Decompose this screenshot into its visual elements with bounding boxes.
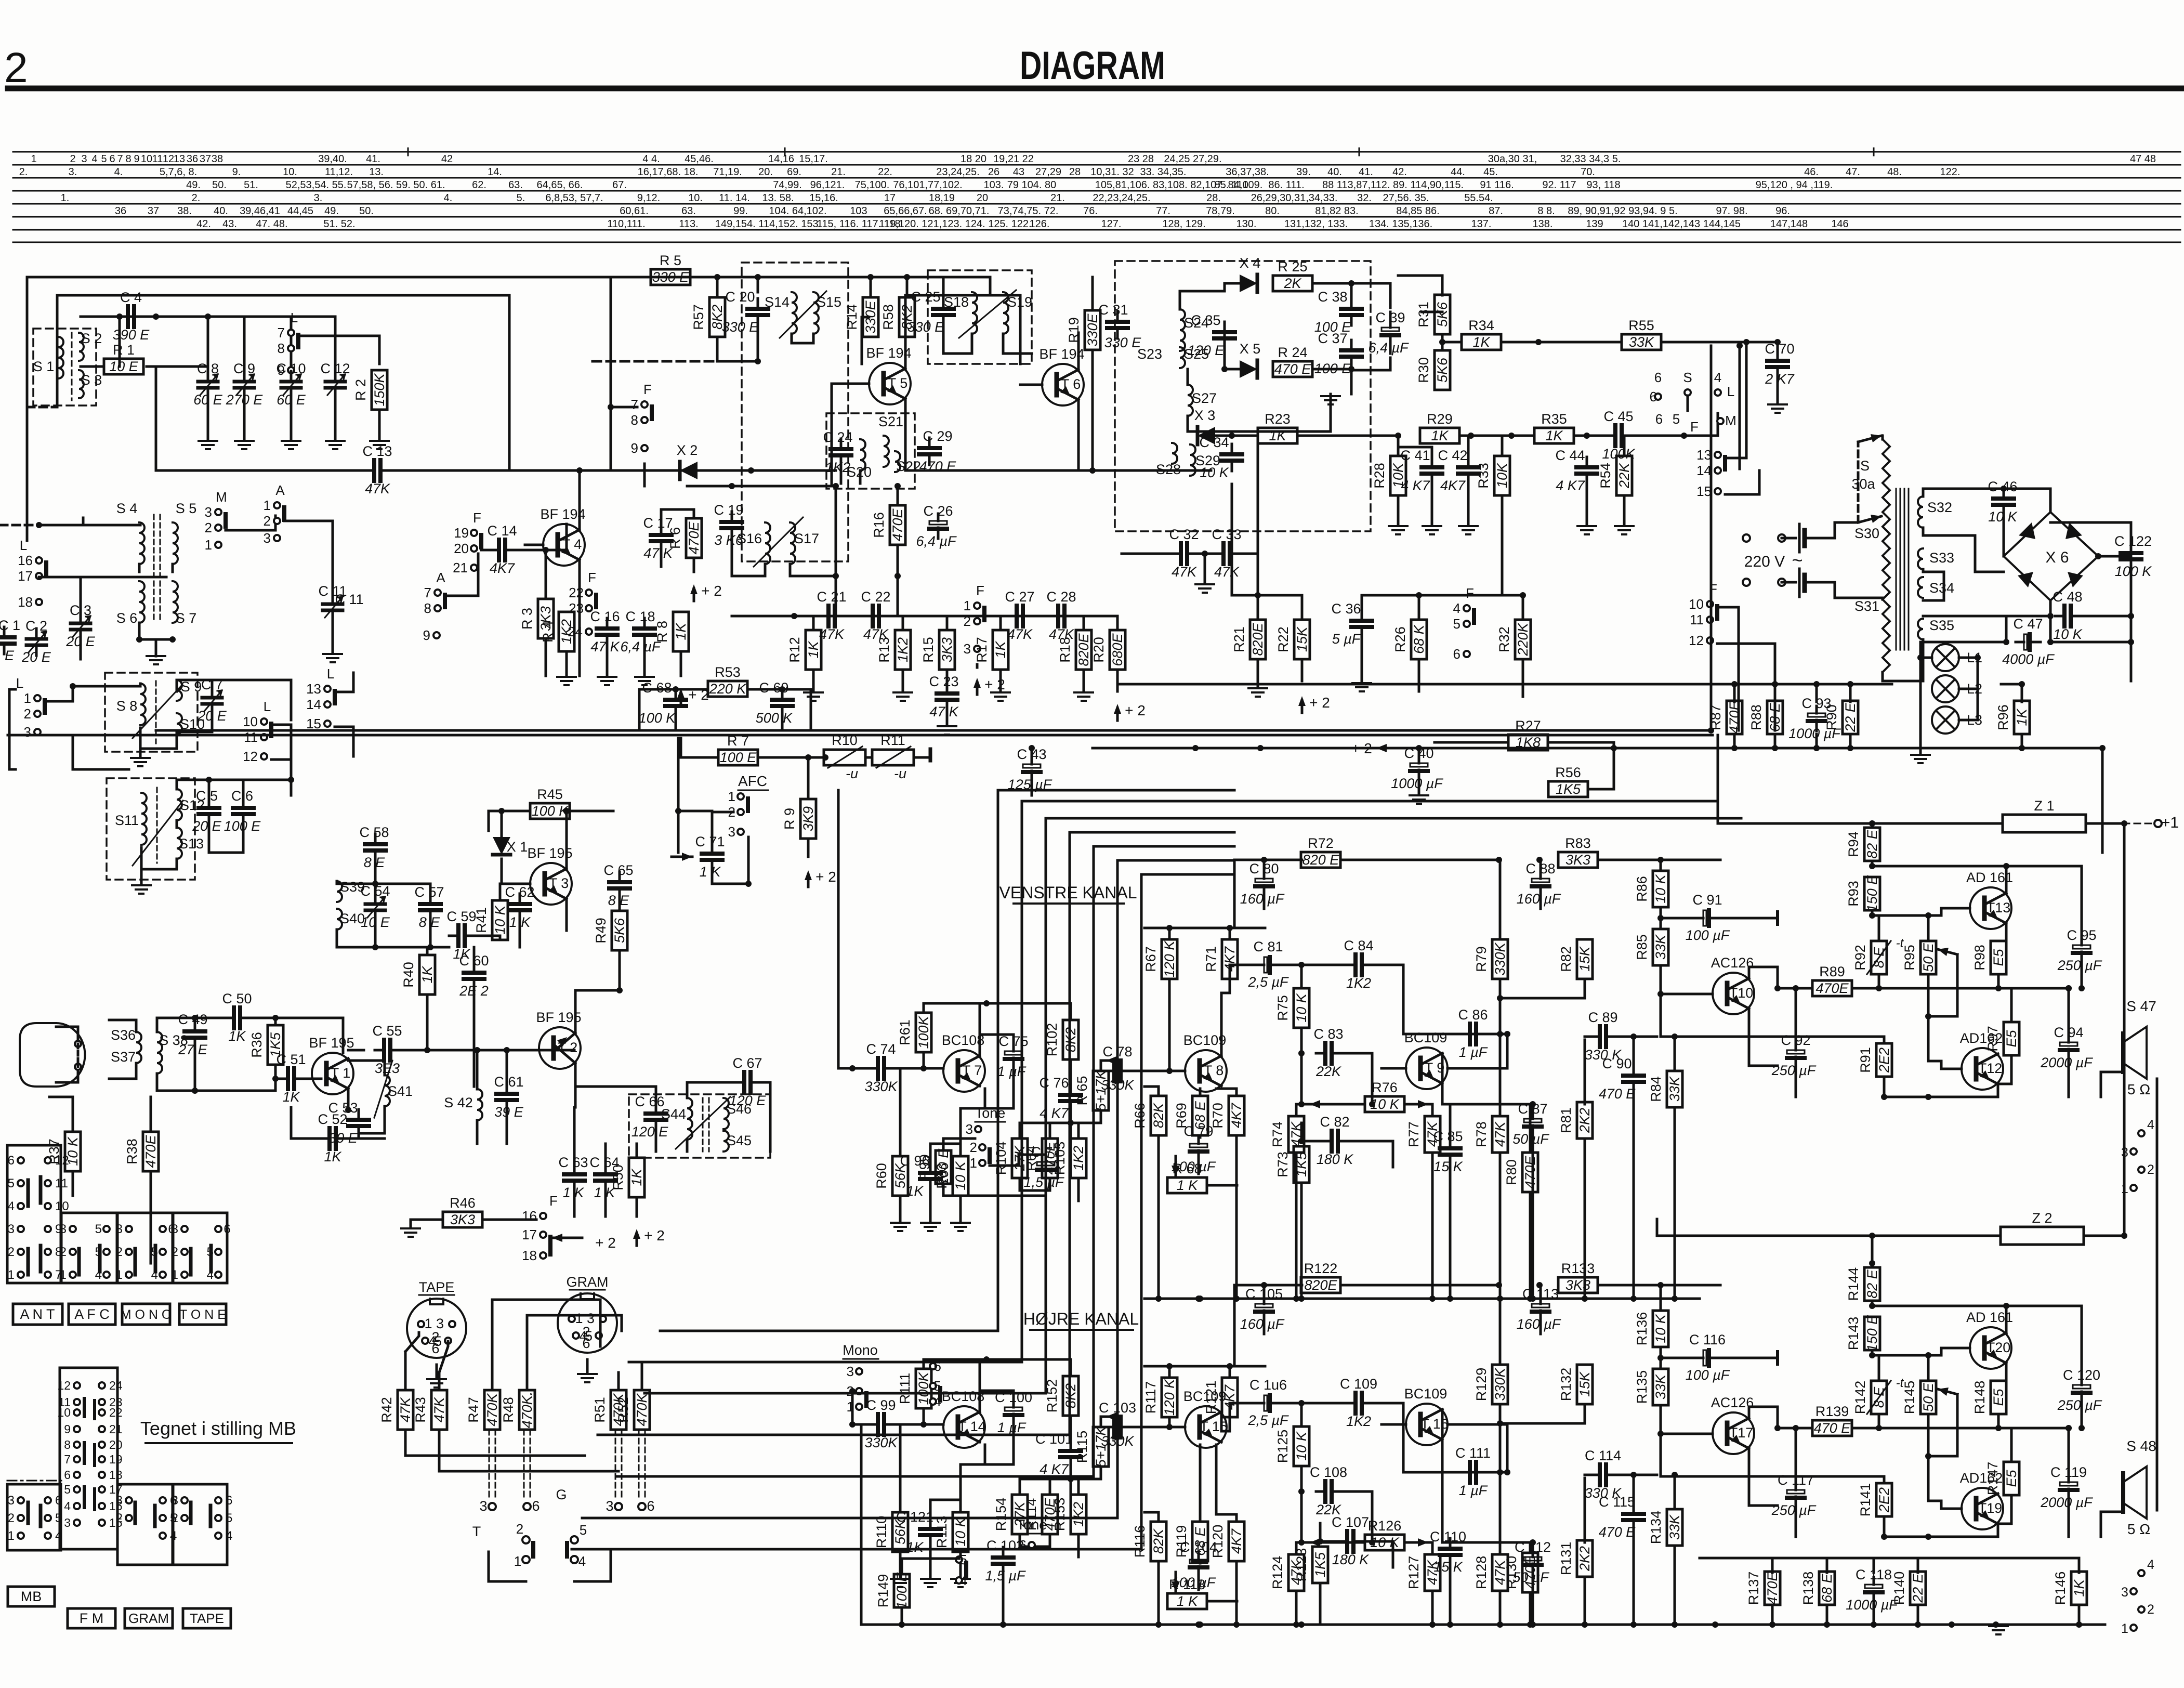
wire: [606, 645, 609, 676]
svg-text:11: 11: [55, 1176, 68, 1190]
wire: [195, 1079, 275, 1091]
wire: [274, 1018, 277, 1025]
wire: [249, 1017, 275, 1019]
capacitor C 52: [320, 1137, 330, 1140]
capacitor C 10: [290, 371, 293, 382]
tuning arrow: [133, 801, 183, 866]
svg-text:100 E: 100 E: [720, 750, 757, 765]
svg-text:R85: R85: [1634, 934, 1650, 960]
wire: [2003, 515, 2005, 556]
wire: [1301, 1103, 1365, 1106]
wire: [545, 638, 547, 676]
svg-text:86. 111.: 86. 111.: [1268, 179, 1304, 191]
capacitor C 78: [1105, 1070, 1114, 1072]
svg-text:R140: R140: [1891, 1572, 1907, 1605]
svg-text:R35: R35: [1541, 411, 1567, 427]
resistor R66: [1151, 1096, 1166, 1135]
switch contacts ['5', '4']: [930, 1383, 936, 1389]
resistor R21: [1250, 620, 1266, 659]
capacitor C 81: [1256, 964, 1264, 966]
wire: [1340, 859, 1499, 861]
svg-text:1: 1: [514, 1553, 521, 1569]
node b78: [1166, 1424, 1173, 1430]
ground: [1410, 794, 1428, 796]
wire: [429, 921, 432, 947]
svg-text:9: 9: [423, 627, 430, 643]
node r89r: [1876, 1425, 1882, 1431]
svg-text:47 K: 47 K: [929, 704, 959, 719]
resistor R64: [1042, 1139, 1058, 1178]
svg-text:10,31. 32: 10,31. 32: [1090, 166, 1134, 178]
svg-text:R77: R77: [1406, 1121, 1422, 1147]
svg-text:R 1: R 1: [113, 342, 135, 358]
switch contacts L: [288, 330, 294, 336]
resistor R148: [1991, 1381, 2006, 1414]
resistor R 3: [538, 599, 554, 638]
wire: [1263, 1321, 1266, 1334]
resistor R50: [629, 1158, 644, 1197]
wire: [476, 1050, 479, 1089]
wire: [526, 1315, 529, 1390]
node r95w: [1925, 1453, 1931, 1459]
svg-text:R126: R126: [1368, 1518, 1402, 1534]
svg-text:R135: R135: [1634, 1370, 1650, 1404]
svg-text:1: 1: [2121, 1621, 2128, 1636]
wire: [655, 1130, 657, 1151]
switch contacts F: [974, 603, 980, 609]
junction: [1712, 1621, 1718, 1628]
junction: [1582, 1296, 1588, 1302]
capacitor C 1: [3, 627, 6, 637]
svg-text:22.: 22.: [878, 166, 892, 178]
wire: [243, 398, 246, 439]
label box TONE: [179, 1304, 226, 1325]
svg-text:S11: S11: [115, 813, 139, 828]
capacitor C 88: [1540, 871, 1542, 879]
wire: [1230, 1285, 1234, 1366]
coil S16: [765, 522, 770, 564]
svg-text:100K: 100K: [916, 1015, 931, 1049]
svg-text:1 µF: 1 µF: [997, 1420, 1027, 1435]
svg-text:~: ~: [1792, 549, 1803, 571]
wire: [1871, 1350, 1874, 1355]
wire: [492, 1300, 600, 1346]
wire: [1300, 965, 1303, 988]
coil S 7: [173, 581, 178, 623]
wire: [56, 1027, 78, 1040]
resistor R22: [1294, 620, 1310, 659]
switch contacts ['3']: [856, 1368, 862, 1375]
junction: [2076, 1621, 2082, 1628]
svg-text:R 6: R 6: [667, 527, 683, 549]
resistor R 2: [372, 370, 387, 410]
svg-text:330K: 330K: [1492, 942, 1508, 975]
node +2: [693, 588, 695, 601]
switch contacts ['5']: [956, 1556, 962, 1563]
junction: [1298, 1621, 1305, 1628]
svg-text:23 28: 23 28: [1128, 153, 1154, 165]
coil S 9: [177, 680, 182, 701]
svg-text:2: 2: [8, 1511, 15, 1525]
switch contacts L: [324, 686, 331, 692]
wire: [177, 714, 212, 732]
wire: [1661, 1476, 1884, 1483]
ground: [951, 1578, 970, 1580]
svg-text:1K2: 1K2: [1071, 1146, 1086, 1171]
wire: [1917, 1605, 1919, 1625]
svg-text:820E: 820E: [1304, 1277, 1337, 1293]
svg-text:R98: R98: [1972, 945, 1988, 971]
svg-text:51.: 51.: [244, 179, 258, 191]
wire: [1749, 1407, 1778, 1418]
svg-text:11: 11: [152, 153, 163, 165]
wire: [1923, 528, 2004, 572]
wire: [946, 670, 949, 683]
svg-text:R41: R41: [473, 907, 489, 933]
svg-text:3: 3: [172, 1222, 178, 1236]
resistor R 7: [718, 750, 758, 765]
resistor R134: [1667, 1509, 1682, 1546]
label box AFC: [69, 1304, 115, 1325]
wire: [81, 365, 101, 368]
wire: [1157, 1135, 1160, 1299]
node t11b: [1881, 1094, 1887, 1100]
wire: [1234, 1284, 1302, 1287]
staircase bus 5: [616, 846, 1234, 1476]
junction: [1233, 1621, 1240, 1628]
wire: [275, 1018, 343, 1053]
svg-text:40.: 40.: [214, 205, 228, 217]
capacitor C 22: [863, 615, 873, 618]
resistor R114: [1042, 1495, 1058, 1534]
capacitor C 13: [365, 469, 374, 472]
wire: [1795, 1068, 1797, 1097]
wire: [1070, 1059, 1072, 1084]
wire: [1144, 927, 1265, 930]
transistor T17: [1713, 1412, 1754, 1454]
wire: [1003, 334, 1032, 354]
svg-text:+1: +1: [2161, 814, 2179, 831]
svg-text:12: 12: [163, 153, 174, 165]
svg-text:1 µF: 1 µF: [1459, 1483, 1488, 1498]
capacitor C 47: [2016, 641, 2024, 644]
switch contacts A: [274, 502, 280, 508]
svg-text:1.: 1.: [61, 192, 70, 204]
svg-text:220 V: 220 V: [1744, 553, 1785, 570]
svg-text:2: 2: [172, 1245, 178, 1259]
wire: [1499, 1285, 1502, 1365]
node r77: [1369, 1539, 1375, 1546]
wire: [527, 1315, 622, 1331]
svg-text:52,53,54. 55.: 52,53,54. 55.: [286, 179, 347, 191]
wire: [207, 398, 209, 439]
capacitor C 115: [1633, 1503, 1635, 1514]
svg-text:146: 146: [1831, 218, 1848, 230]
svg-text:32.: 32.: [1357, 192, 1372, 204]
resistor R 118: [1167, 1593, 1207, 1609]
wire: [1873, 1605, 1875, 1625]
resistor R144: [1864, 1267, 1880, 1301]
capacitor C 121: [929, 1519, 932, 1529]
wire: [1927, 974, 1930, 1061]
svg-text:R71: R71: [1203, 946, 1219, 972]
node E19: [805, 754, 811, 761]
svg-text:C 115: C 115: [1599, 1494, 1635, 1510]
wire: [1499, 1591, 1502, 1625]
wire: [156, 469, 373, 472]
bus: [1710, 346, 1713, 730]
svg-text:36,37,38.: 36,37,38.: [1226, 166, 1269, 178]
wire: [1502, 594, 1523, 597]
svg-text:R49: R49: [593, 918, 609, 944]
svg-text:F: F: [588, 570, 596, 585]
wire: [1871, 1301, 1874, 1306]
svg-text:2 K7: 2 K7: [1765, 371, 1795, 387]
wire: [1382, 1423, 1406, 1426]
secondary S33: [1918, 548, 1923, 569]
svg-text:30a,30 31,: 30a,30 31,: [1488, 153, 1537, 165]
arrow pot: [1106, 1416, 1117, 1418]
wire: [1295, 1153, 1298, 1299]
resistor R61: [916, 1013, 931, 1052]
svg-text:131,132, 133.: 131,132, 133.: [1284, 218, 1348, 230]
wire: [271, 760, 291, 795]
wire: [2005, 1306, 2008, 1333]
svg-text:6: 6: [431, 1341, 439, 1356]
arrow pot77: [1414, 1541, 1428, 1544]
svg-text:F M: F M: [80, 1611, 104, 1626]
wire: [176, 680, 178, 691]
wire: [2068, 988, 2070, 1035]
switch bank box 9: [173, 1484, 227, 1565]
wire: [2080, 615, 2131, 618]
transistor T12: [1962, 1048, 2003, 1090]
secondary S32: [1918, 496, 1923, 528]
resistor R46: [443, 1212, 482, 1227]
wire: [1398, 447, 1432, 457]
wire: [861, 1624, 1092, 1626]
wire: [1540, 1321, 1542, 1334]
wire: [2050, 522, 2131, 543]
wire: [1049, 1479, 1051, 1495]
resistor R18: [1076, 630, 1091, 670]
wire: [575, 1087, 656, 1103]
svg-text:R 24: R 24: [1278, 345, 1307, 360]
wire: [1928, 1394, 1957, 1456]
svg-text:99.: 99.: [733, 205, 748, 217]
svg-text:T: T: [472, 1524, 481, 1539]
svg-text:49.: 49.: [186, 179, 201, 191]
wire: [899, 1424, 902, 1512]
ground: [921, 1222, 940, 1224]
wire: [157, 1074, 195, 1091]
capacitor C 18: [643, 618, 646, 629]
wire: [610, 277, 612, 470]
svg-text:2: 2: [8, 1245, 15, 1259]
wire: [930, 1500, 961, 1519]
svg-text:AFC: AFC: [738, 773, 767, 789]
svg-text:C 18: C 18: [625, 609, 655, 624]
svg-text:R88: R88: [1748, 704, 1764, 730]
svg-text:S35: S35: [1929, 618, 1954, 633]
wire: [120, 316, 335, 318]
resistor R127: [1425, 1554, 1440, 1591]
wire: [990, 277, 1020, 364]
arrow pot68: [1175, 1156, 1177, 1176]
svg-text:R134: R134: [1648, 1511, 1664, 1545]
wire: [712, 812, 733, 843]
wire: [1771, 1558, 1774, 1573]
resistor R 1: [104, 359, 143, 374]
wire: [852, 1423, 869, 1426]
capacitor C 46: [2003, 488, 2005, 499]
svg-text:47K: 47K: [398, 1397, 413, 1422]
wire: [489, 1552, 526, 1581]
resistor R30: [1435, 350, 1450, 390]
svg-text:Z 2: Z 2: [2032, 1210, 2052, 1226]
svg-text:18,19: 18,19: [929, 192, 955, 204]
svg-text:X 4: X 4: [1240, 255, 1261, 271]
wire: [1873, 1558, 1875, 1573]
resistor R126: [1365, 1535, 1404, 1550]
wire: [904, 399, 907, 470]
wire: [985, 1069, 1014, 1108]
svg-text:C 48: C 48: [2053, 589, 2082, 605]
resistor R117: [1162, 1378, 1177, 1417]
wire: [1070, 1003, 1072, 1020]
capacitor C 83: [1316, 1052, 1325, 1055]
svg-text:45.: 45.: [1483, 166, 1498, 178]
wire: [678, 810, 712, 813]
wire: [1199, 1445, 1202, 1522]
resistor R137: [1765, 1572, 1780, 1605]
capacitor C 119: [2068, 1475, 2070, 1482]
switch contacts ['18']: [36, 599, 42, 605]
svg-text:S 48: S 48: [2126, 1438, 2156, 1454]
svg-text:100 K: 100 K: [639, 710, 676, 726]
ground: [991, 691, 1010, 693]
svg-text:S14: S14: [765, 294, 790, 310]
wire: [1777, 342, 1779, 350]
bridge rectifier X6: [2004, 512, 2098, 600]
svg-text:33K: 33K: [1653, 1374, 1668, 1399]
wire: [1540, 896, 1542, 909]
svg-text:C 82: C 82: [1320, 1114, 1349, 1130]
switch bank box 3: [117, 1213, 173, 1283]
svg-text:R104: R104: [993, 1142, 1009, 1175]
svg-text:470E: 470E: [1522, 1155, 1538, 1188]
wire: [897, 545, 899, 616]
svg-text:R128: R128: [1473, 1556, 1489, 1590]
junction: [899, 1621, 905, 1628]
label box GRAM: [125, 1608, 173, 1628]
svg-text:470 E: 470 E: [1814, 1420, 1851, 1436]
node B5: [729, 483, 735, 489]
svg-text:+ 2: + 2: [644, 1227, 665, 1244]
wire: [1431, 1104, 1434, 1116]
svg-text:E5: E5: [1991, 1389, 2006, 1406]
wire: [976, 664, 979, 668]
node D4: [2047, 613, 2054, 619]
resistor R69: [1192, 1096, 1208, 1135]
resistor R 24: [1273, 361, 1312, 377]
svg-text:T 1: T 1: [331, 1065, 351, 1081]
wire: [1774, 734, 1777, 748]
node B9: [894, 483, 901, 489]
wire: [1598, 859, 1720, 861]
junction: [1869, 820, 1875, 827]
junction: [1871, 1621, 1877, 1628]
svg-text:140 141,142,143 144,145: 140 141,142,143 144,145: [1622, 218, 1741, 230]
svg-text:2,5 µF: 2,5 µF: [1247, 974, 1289, 990]
svg-text:C 14: C 14: [487, 523, 517, 539]
svg-text:6: 6: [109, 153, 115, 165]
svg-text:R94: R94: [1846, 831, 1861, 857]
resistor R104: [1012, 1139, 1028, 1178]
resistor R130: [1522, 1553, 1538, 1592]
svg-text:160 µF: 160 µF: [1517, 1316, 1561, 1332]
svg-text:C 89: C 89: [1588, 1010, 1617, 1025]
wire: [1198, 1135, 1200, 1136]
svg-text:28.: 28.: [1206, 192, 1221, 204]
junction: [1582, 1621, 1588, 1628]
svg-text:45,46.: 45,46.: [685, 153, 714, 165]
resistor R73: [1294, 1146, 1309, 1183]
wire: [1341, 1053, 1372, 1104]
wire: [1826, 1605, 1828, 1625]
svg-text:50.: 50.: [359, 205, 374, 217]
node in: [849, 1065, 856, 1071]
wire: [1849, 684, 1852, 702]
svg-text:127.: 127.: [1101, 218, 1122, 230]
wire: [2050, 641, 2131, 644]
wire: [1351, 283, 1390, 308]
transistor T10: [1713, 973, 1754, 1014]
wire: [1179, 291, 1181, 309]
wire: [345, 1137, 385, 1140]
lamp L2: [1932, 675, 1959, 702]
coil S44: [687, 1098, 692, 1140]
svg-text:+ 2: + 2: [595, 1235, 616, 1251]
wire: [942, 277, 945, 298]
svg-text:220 K: 220 K: [709, 681, 747, 697]
svg-text:27,56. 35.: 27,56. 35.: [1383, 192, 1429, 204]
svg-text:2: 2: [2147, 1602, 2154, 1617]
resistor R141: [1876, 1483, 1892, 1516]
wire: [2010, 1428, 2013, 1462]
wire: [1871, 823, 1874, 828]
svg-text:C 61: C 61: [494, 1074, 523, 1090]
svg-text:1,5 µF: 1,5 µF: [1023, 1174, 1064, 1190]
switch contacts ['2', '1']: [856, 1388, 862, 1394]
wire: [575, 990, 620, 1033]
svg-text:160 µF: 160 µF: [1240, 891, 1285, 907]
wire: [400, 1049, 427, 1052]
svg-text:C 25: C 25: [911, 289, 940, 305]
svg-text:14: 14: [306, 697, 321, 712]
node B1: [714, 274, 720, 280]
wire: [643, 645, 646, 676]
wire: [1199, 1089, 1202, 1096]
wire: [348, 1061, 385, 1075]
wire: [1749, 1009, 1778, 1066]
svg-text:R51: R51: [592, 1397, 608, 1423]
svg-text:1000 µF: 1000 µF: [1391, 776, 1443, 791]
wire: [999, 616, 1002, 630]
svg-text:330K: 330K: [1492, 1367, 1508, 1401]
svg-text:470 E: 470 E: [1274, 361, 1312, 377]
wire: [2021, 734, 2023, 748]
